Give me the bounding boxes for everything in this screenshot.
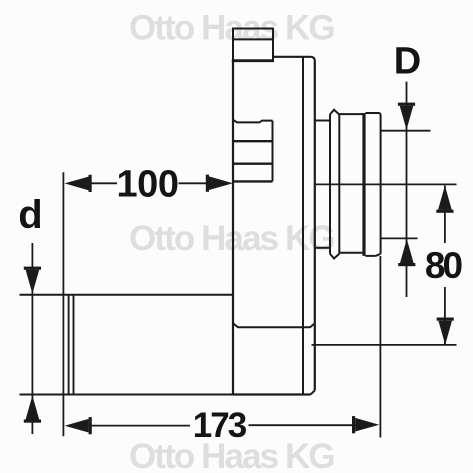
- output neck bottom: [315, 247, 330, 249]
- 80 dim upper arrow (points up): [438, 186, 452, 210]
- collar bottom edge: [339, 252, 362, 254]
- fin block top edge with step: [233, 120, 273, 123]
- ring top chamfer: [330, 110, 339, 115]
- 80 dim bottom reference line: [312, 344, 457, 346]
- ring right edge: [338, 115, 340, 254]
- collar/end boundary thick line: [362, 113, 365, 256]
- 100 dim left extension line: [62, 172, 64, 436]
- body bottom edge: [233, 393, 311, 395]
- 100 dim right arrow (points right): [209, 176, 233, 190]
- D dim lower arrow (points up): [400, 239, 414, 263]
- end section bottom edge: [366, 255, 376, 257]
- D dim upper arrow (points down): [400, 106, 414, 130]
- svg-text:173: 173: [193, 406, 247, 445]
- output neck top: [315, 120, 330, 122]
- D dim top reference line: [381, 130, 431, 132]
- end section top edge: [366, 113, 381, 116]
- body right edge: [314, 61, 316, 391]
- body top edge: [273, 56, 310, 58]
- 173 dim right arrow (points right): [355, 418, 379, 432]
- fin block line 2: [233, 162, 273, 164]
- body bottom-right chamfer: [311, 391, 315, 395]
- d dim upper arrow (points down): [26, 270, 40, 294]
- collar top edge: [339, 113, 362, 115]
- fin block bottom edge: [233, 180, 273, 182]
- svg-text:d: d: [18, 193, 42, 237]
- body feature line: [234, 324, 315, 328]
- 173 dim left arrow (points left): [65, 419, 89, 433]
- 100 dim line left segment: [87, 182, 117, 184]
- 80 dim line lower segment: [444, 287, 446, 345]
- body inner face line: [302, 58, 304, 395]
- hollow shaft tube left face outer line: [68, 295, 70, 395]
- 173 dim line right segment: [249, 424, 357, 426]
- hollow shaft tube top: [20, 294, 234, 296]
- terminal box on top: [233, 29, 273, 61]
- hollow shaft tube left face inner line: [73, 295, 75, 395]
- terminal box lid line: [233, 38, 273, 40]
- svg-text:Otto Haas KG: Otto Haas KG: [129, 9, 334, 48]
- d dim vertical line: [31, 243, 33, 434]
- 80 dim line upper segment: [444, 186, 446, 244]
- hollow shaft tube bottom: [20, 394, 234, 396]
- 100 dim left arrow (points left): [65, 177, 89, 191]
- fin block right edge: [272, 121, 274, 182]
- 173 dim right extension line: [379, 256, 381, 438]
- svg-text:80: 80: [425, 245, 463, 286]
- svg-text:100: 100: [117, 164, 179, 206]
- 173 dim line left segment: [90, 425, 191, 427]
- end section right edge: [380, 116, 382, 254]
- ring left edge: [329, 114, 331, 254]
- svg-text:D: D: [394, 41, 421, 83]
- D dim bottom reference line: [381, 237, 418, 239]
- fin block line 1: [233, 140, 273, 142]
- 80 dim lower arrow (points down): [438, 321, 452, 345]
- end section bottom chamfer: [376, 254, 381, 256]
- body left edge: [232, 61, 234, 395]
- 100 dim line right segment: [179, 182, 211, 184]
- centerline / 80 top reference: [315, 183, 457, 185]
- body top-right rounded corner: [310, 57, 315, 61]
- D dim vertical line: [406, 82, 408, 297]
- d dim lower arrow (points up): [26, 396, 40, 420]
- ring bottom chamfer: [330, 254, 339, 259]
- terminal box bottom line: [232, 59, 274, 62]
